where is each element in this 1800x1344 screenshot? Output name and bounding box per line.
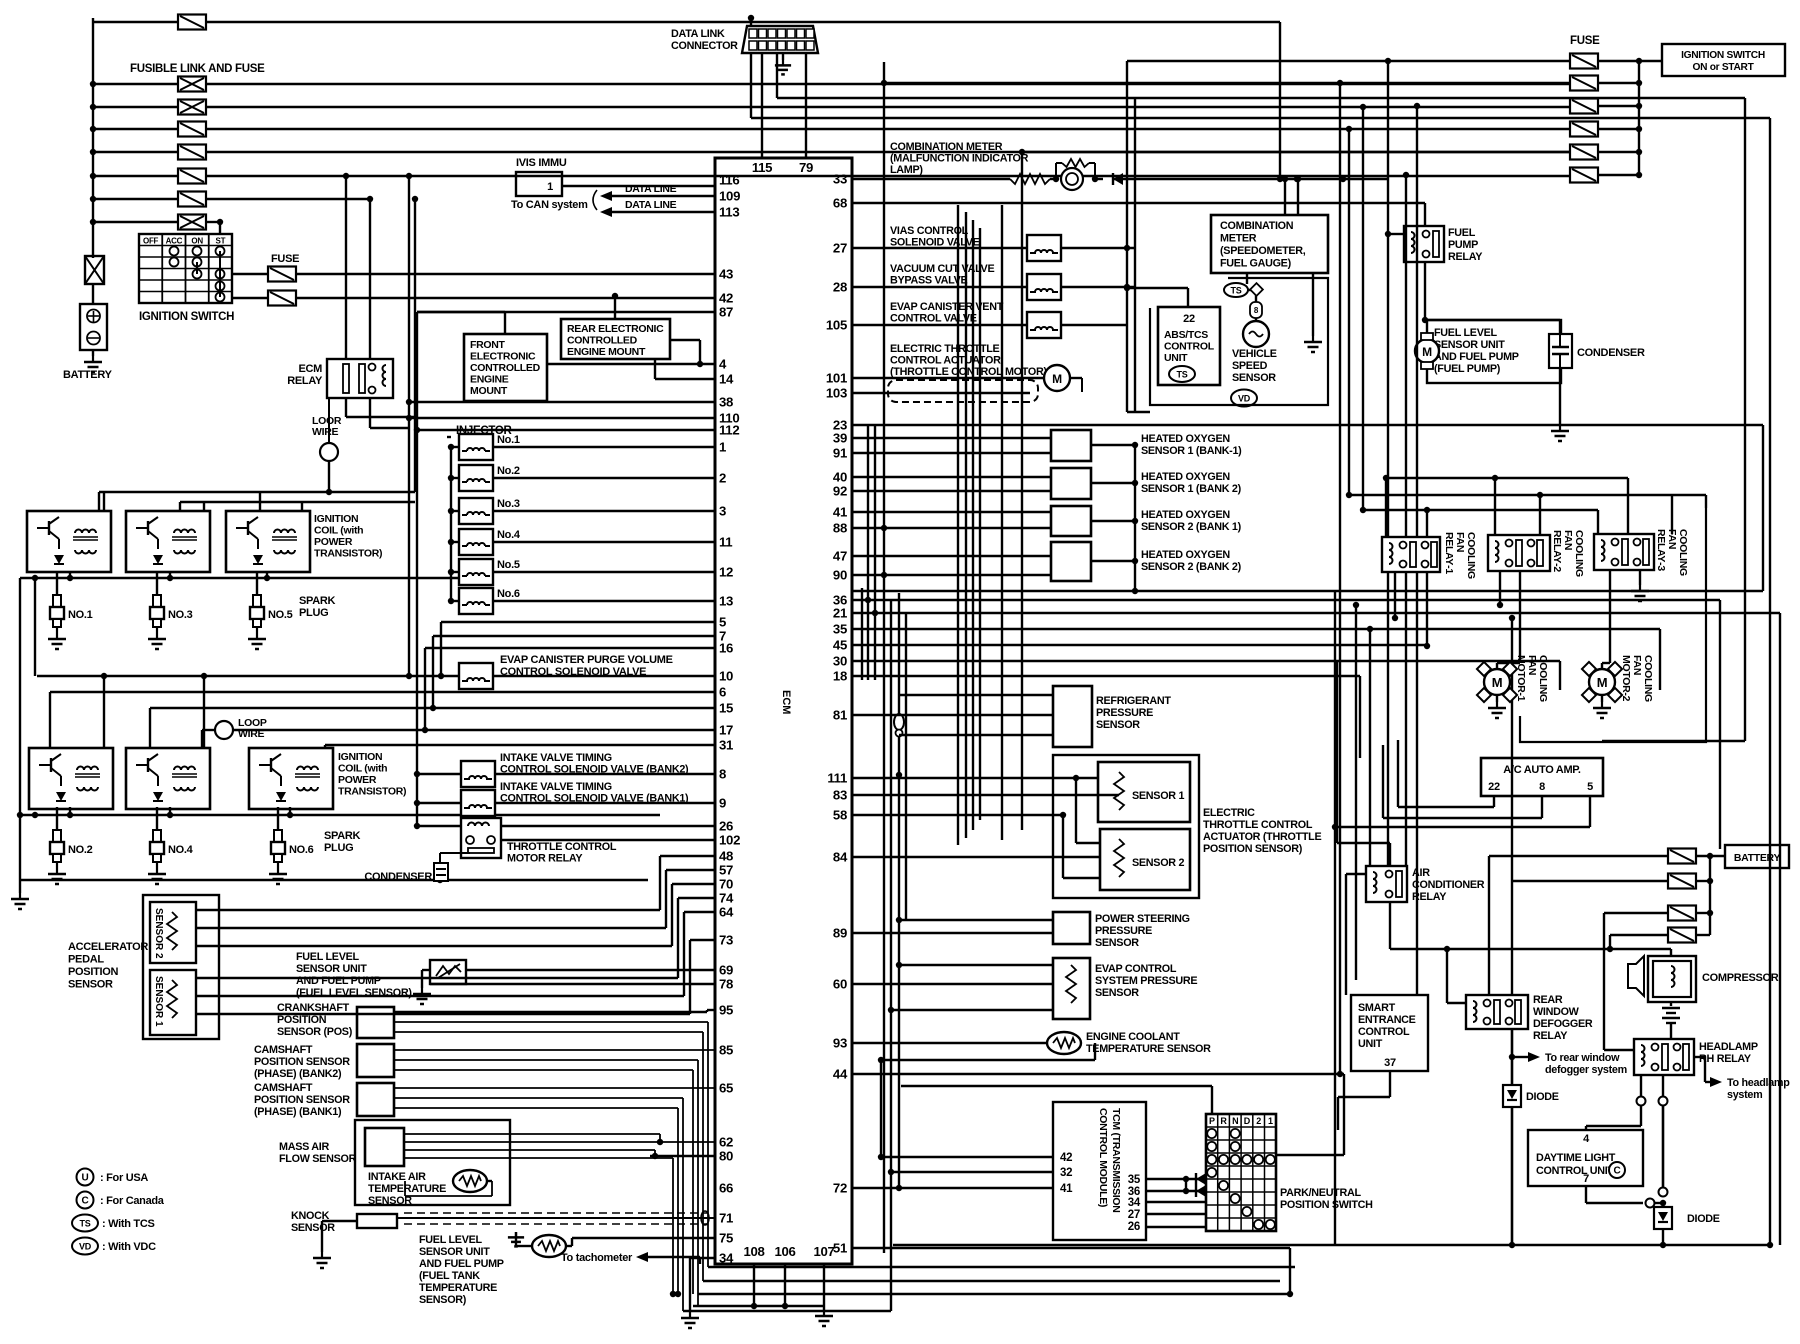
evap canister vent control valve [1027, 312, 1061, 338]
spark plug NO.3 [156, 572, 158, 595]
throttle control motor relay [461, 818, 501, 858]
svg-text:16: 16 [719, 641, 733, 656]
svg-text:CAMSHAFT: CAMSHAFT [254, 1044, 313, 1056]
svg-text:SENSOR: SENSOR [68, 979, 113, 991]
fuse battery 3 [1668, 906, 1696, 921]
svg-text:FRONT: FRONT [470, 339, 506, 351]
joint connector [894, 714, 904, 730]
svg-text:: For USA: : For USA [100, 1172, 148, 1184]
svg-text:83: 83 [833, 788, 847, 803]
svg-text:101: 101 [826, 371, 847, 386]
svg-text:(MALFUNCTION INDICATOR: (MALFUNCTION INDICATOR [890, 153, 1029, 165]
svg-text:15: 15 [719, 701, 733, 716]
heated oxygen sensor 4 [1051, 542, 1091, 581]
svg-text:RELAY‑1: RELAY‑1 [1443, 532, 1455, 574]
svg-text:35: 35 [833, 622, 847, 637]
wire injector 4 feed [451, 541, 459, 543]
wire coil gnd drop [69, 572, 71, 578]
wire cf far right [1744, 98, 1746, 741]
svg-text:AND FUEL PUMP: AND FUEL PUMP [419, 1258, 504, 1270]
svg-text:NO.3: NO.3 [168, 609, 193, 621]
battery [92, 284, 94, 304]
svg-text:EVAP CANISTER VENT: EVAP CANISTER VENT [890, 301, 1004, 313]
wire dlc 115 [748, 15, 754, 21]
injector No.5 [459, 559, 493, 585]
svg-text:NO.6: NO.6 [289, 844, 314, 856]
svg-text:(FUEL LEVEL SENSOR): (FUEL LEVEL SENSOR) [296, 987, 412, 999]
svg-text:TCM (TRANSMISSION: TCM (TRANSMISSION [1110, 1108, 1122, 1213]
svg-text:SENSOR 2 (BANK 2): SENSOR 2 (BANK 2) [1141, 561, 1242, 573]
wire ground bus bottom [20, 879, 648, 881]
svg-text:44: 44 [833, 1067, 848, 1082]
maf inner [365, 1128, 404, 1166]
svg-text:SENSOR): SENSOR) [419, 1294, 467, 1306]
svg-text:ENGINE MOUNT: ENGINE MOUNT [567, 346, 646, 358]
svg-text:COMBINATION METER: COMBINATION METER [890, 141, 1003, 153]
svg-text:27: 27 [833, 241, 847, 256]
A/C auto amp [1481, 758, 1603, 796]
wire headlamp relay out right [1694, 1056, 1705, 1058]
wire coil power stubs [103, 492, 105, 511]
wire injector 5 feed [451, 571, 459, 573]
wire bottom bus right [1662, 1229, 1664, 1245]
svg-text:91: 91 [833, 446, 847, 461]
svg-text:VEHICLE: VEHICLE [1232, 348, 1277, 360]
svg-text:87: 87 [719, 305, 733, 320]
rear window defogger relay [1466, 995, 1528, 1029]
wire trunk v 1335 [1334, 590, 1336, 1245]
wire injector 5 to ECM [493, 571, 715, 573]
wire comb meter feeds [1284, 179, 1286, 215]
svg-text:10: 10 [719, 669, 733, 684]
svg-text:DATA LINK: DATA LINK [671, 28, 725, 40]
intake valve timing control solenoid valve bank2 [461, 761, 495, 787]
TCM transmission control module [1053, 1102, 1146, 1240]
svg-text:REAR: REAR [1533, 994, 1563, 1006]
svg-text:3: 3 [719, 504, 726, 519]
svg-text:26: 26 [719, 819, 733, 834]
fuel level sensor unit and fuel pump [1427, 320, 1561, 383]
wire ignition to fuses [232, 273, 268, 275]
wire to tachometer [648, 1256, 700, 1258]
svg-text:M: M [1052, 372, 1062, 386]
svg-text:SENSOR 1 (BANK 2): SENSOR 1 (BANK 2) [1141, 483, 1242, 495]
svg-text:88: 88 [833, 521, 847, 536]
svg-text:IGNITION SWITCH: IGNITION SWITCH [1681, 50, 1765, 61]
svg-text:R: R [1220, 1116, 1227, 1126]
intake valve timing control solenoid valve bank1 [461, 790, 495, 816]
ignition coil row1 3 [226, 511, 310, 572]
svg-text:POSITION: POSITION [68, 966, 119, 978]
wire right fuse collector [1638, 61, 1640, 175]
wire coil2 gnd drop [289, 807, 291, 815]
diode MIL [1113, 173, 1123, 185]
svg-text:107: 107 [813, 1244, 834, 1259]
svg-text:VACUUM CUT VALVE: VACUUM CUT VALVE [890, 263, 994, 275]
wire mounts [504, 312, 506, 334]
wire smart entrance [1389, 1071, 1391, 1097]
wire app sensor2 [196, 909, 660, 911]
data link connector [742, 26, 818, 53]
wire purge valve to ECM pin10 [493, 675, 715, 677]
wire ecm relay out 1 [345, 398, 347, 417]
svg-text:SENSOR 1 (BANK-1): SENSOR 1 (BANK-1) [1141, 445, 1242, 457]
svg-text:FUSE: FUSE [271, 253, 299, 265]
sensor 1 [1098, 762, 1190, 822]
ECM relay [327, 359, 393, 398]
svg-text:17: 17 [719, 723, 733, 738]
svg-text:SENSOR: SENSOR [1095, 987, 1139, 999]
fuel pump relay [1404, 226, 1444, 262]
ABS/TCS control unit [1158, 307, 1220, 385]
svg-text:POSITION: POSITION [277, 1014, 327, 1026]
svg-text:SYSTEM PRESSURE: SYSTEM PRESSURE [1095, 975, 1197, 987]
refrigerant pressure sensor [1053, 686, 1092, 747]
svg-text:MOTOR RELAY: MOTOR RELAY [507, 853, 583, 865]
svg-text:WIRE: WIRE [312, 426, 339, 438]
svg-text:78: 78 [719, 977, 733, 992]
svg-text:M: M [1422, 345, 1432, 359]
svg-text:2: 2 [719, 471, 726, 486]
svg-text:IVIS IMMU: IVIS IMMU [516, 157, 567, 169]
svg-text:To rear window: To rear window [1545, 1052, 1620, 1064]
wire trunk v 1406 [1405, 175, 1407, 866]
wire fuel level gnd [422, 969, 430, 971]
svg-text:HEATED OXYGEN: HEATED OXYGEN [1141, 549, 1230, 561]
svg-text:P: P [1209, 1116, 1215, 1126]
svg-text:37: 37 [1384, 1057, 1396, 1069]
svg-text:ACCELERATOR: ACCELERATOR [68, 941, 148, 953]
wire mid 3 [852, 628, 1660, 630]
ignition coil row2 1 [29, 748, 113, 809]
svg-text:RELAY: RELAY [1533, 1030, 1568, 1042]
wire v1135 [1134, 98, 1136, 412]
svg-text:66: 66 [719, 1181, 733, 1196]
svg-text:112: 112 [719, 423, 739, 438]
wire pin38 [409, 401, 715, 403]
svg-text:POWER: POWER [338, 774, 377, 786]
svg-text:64: 64 [719, 905, 734, 920]
ignition switch on or start [1662, 44, 1785, 76]
fuse right 1 [1570, 54, 1598, 69]
svg-text:SENSOR 2: SENSOR 2 [153, 908, 164, 959]
cooling fan motor 2 [1601, 663, 1603, 668]
svg-text:TS: TS [1231, 286, 1242, 296]
svg-text:N: N [1232, 1116, 1238, 1126]
wire ac amp pins [1493, 796, 1495, 807]
wire mid 4 [852, 644, 1427, 646]
fuse battery 1 [1668, 849, 1696, 864]
daytime light control unit [1528, 1130, 1643, 1186]
svg-text:ST: ST [216, 237, 226, 246]
svg-text:IGNITION SWITCH: IGNITION SWITCH [139, 311, 234, 323]
svg-text:OFF: OFF [143, 237, 159, 246]
wire coil bottom bus row2 [20, 814, 660, 816]
wire ST feed [219, 222, 221, 234]
svg-text:33: 33 [833, 172, 847, 187]
svg-text:42: 42 [719, 291, 733, 306]
svg-text:LAMP): LAMP) [890, 164, 923, 176]
svg-text:51: 51 [833, 1241, 847, 1256]
svg-text:RELAY: RELAY [1448, 251, 1483, 263]
wire trunk v 1370 [1369, 629, 1371, 866]
svg-text:18: 18 [833, 669, 847, 684]
svg-text:SPARK: SPARK [324, 830, 361, 842]
svg-text:(FUEL TANK: (FUEL TANK [419, 1270, 480, 1282]
svg-text:THROTTLE CONTROL: THROTTLE CONTROL [1203, 819, 1313, 831]
svg-text:FUEL LEVEL: FUEL LEVEL [1434, 327, 1497, 339]
svg-text:C: C [82, 1196, 89, 1207]
wire o2 common [1134, 445, 1136, 591]
wire coil2 tops [49, 692, 51, 748]
svg-text:41: 41 [833, 505, 847, 520]
svg-text:TS: TS [80, 1219, 91, 1229]
heated oxygen sensor 1 [1051, 430, 1091, 461]
svg-text:12: 12 [719, 565, 733, 580]
wire pin23 [852, 424, 1763, 426]
svg-text:(SPEEDOMETER,: (SPEEDOMETER, [1220, 245, 1306, 257]
svg-text:21: 21 [833, 606, 847, 621]
svg-text:72: 72 [833, 1181, 847, 1196]
svg-text:FUSIBLE LINK AND FUSE: FUSIBLE LINK AND FUSE [130, 63, 265, 75]
wire ecm relay out 2 [369, 398, 371, 428]
svg-text:WINDOW: WINDOW [1533, 1006, 1580, 1018]
spark plug NO.2 [56, 807, 58, 830]
loop wire 2 [233, 729, 715, 731]
svg-text:SENSOR 2 (BANK 1): SENSOR 2 (BANK 1) [1141, 521, 1242, 533]
wire defogger relay [1511, 881, 1513, 995]
legend TS [72, 1215, 98, 1232]
vacuum cut valve bypass valve [1027, 274, 1061, 300]
data line 1 [612, 195, 715, 197]
wire MIL line [852, 178, 1010, 180]
svg-text:73: 73 [719, 933, 733, 948]
wire ecm relay feeds [345, 176, 347, 359]
svg-text:FUEL LEVEL: FUEL LEVEL [296, 951, 359, 963]
svg-text:CRANKSHAFT: CRANKSHAFT [277, 1002, 350, 1014]
svg-text:35: 35 [1128, 1174, 1141, 1186]
ground cf relay3 [1631, 585, 1649, 601]
svg-text:28: 28 [833, 280, 847, 295]
ignition coil row1 1 [27, 511, 111, 572]
svg-text:IGNITION: IGNITION [338, 751, 382, 763]
svg-text:34: 34 [719, 1251, 734, 1266]
electric throttle control actuator TPS outer [1053, 755, 1199, 898]
ignition switch grid [139, 234, 232, 303]
data line 2 [612, 211, 715, 213]
svg-text:5: 5 [719, 615, 726, 630]
svg-text:C: C [1614, 1166, 1621, 1177]
svg-text:CONTROL: CONTROL [1164, 341, 1215, 353]
svg-text:SENSOR UNIT: SENSOR UNIT [419, 1246, 490, 1258]
svg-text:No.6: No.6 [497, 588, 520, 600]
connector VD oval [1231, 390, 1257, 407]
svg-text:CONTROLLED: CONTROLLED [470, 362, 541, 374]
wires pins 5 7 16 [441, 621, 715, 623]
svg-text:RELAY: RELAY [287, 375, 323, 387]
svg-text:FLOW SENSOR: FLOW SENSOR [279, 1153, 357, 1165]
svg-text:SENSOR UNIT: SENSOR UNIT [1434, 339, 1505, 351]
svg-text:105: 105 [826, 318, 847, 333]
power steering pressure sensor [1053, 912, 1090, 944]
svg-text:INTAKE VALVE TIMING: INTAKE VALVE TIMING [500, 781, 612, 793]
svg-text:MASS AIR: MASS AIR [279, 1141, 329, 1153]
wire tcm to pnp [1146, 1178, 1206, 1180]
wire cf outer loop [1520, 508, 1706, 742]
svg-text:ACC: ACC [166, 237, 183, 246]
svg-text:HEATED OXYGEN: HEATED OXYGEN [1141, 433, 1230, 445]
svg-text:81: 81 [833, 708, 847, 723]
wire injector 3 feed [451, 510, 459, 512]
svg-text:SENSOR: SENSOR [1095, 937, 1139, 949]
svg-text:41: 41 [1060, 1183, 1073, 1195]
wire bundle v6 [898, 593, 900, 1188]
svg-text:(PHASE) (BANK1): (PHASE) (BANK1) [254, 1106, 342, 1118]
svg-text:69: 69 [719, 963, 733, 978]
svg-text:PRESSURE: PRESSURE [1096, 707, 1153, 719]
front electronic controlled engine mount [464, 334, 547, 401]
legend U [77, 1169, 94, 1186]
wire daytime out [1585, 1186, 1587, 1203]
svg-text:92: 92 [833, 484, 847, 499]
svg-text:CONDENSER: CONDENSER [1577, 347, 1645, 359]
fusible link F2 [90, 104, 96, 110]
svg-text:BATTERY: BATTERY [1734, 852, 1781, 864]
svg-text:system: system [1727, 1089, 1762, 1101]
wire trunk v 1356 [1355, 605, 1357, 980]
ignition coil row2 2 [126, 748, 210, 809]
wire pin34 gnd [690, 1257, 715, 1259]
wire vertical bus B [414, 199, 416, 492]
svg-text:80: 80 [719, 1149, 733, 1164]
injector No.4 [459, 529, 493, 555]
svg-text:8: 8 [1539, 781, 1545, 793]
svg-text:M: M [1597, 675, 1608, 690]
svg-text:DIODE: DIODE [1526, 1091, 1559, 1103]
svg-text:No.4: No.4 [497, 529, 521, 541]
svg-text:30: 30 [833, 654, 847, 669]
diode 2 [1662, 1203, 1664, 1207]
wire bundle v2 [867, 425, 869, 680]
svg-text:SENSOR UNIT: SENSOR UNIT [296, 963, 367, 975]
svg-text:60: 60 [833, 977, 847, 992]
svg-text:38: 38 [719, 395, 733, 410]
svg-text:2: 2 [1256, 1116, 1261, 1126]
svg-text:116: 116 [719, 173, 739, 188]
svg-text:BATTERY: BATTERY [63, 369, 113, 381]
svg-text:MOTOR‑1: MOTOR‑1 [1515, 655, 1527, 702]
wire headlamp feed [1603, 913, 1605, 1050]
wire trunk v 1763 [1762, 425, 1764, 591]
fuse battery 4 [1668, 928, 1696, 943]
svg-text:65: 65 [719, 1081, 733, 1096]
svg-text:PUMP: PUMP [1448, 239, 1478, 251]
fusible link F4 [90, 149, 96, 155]
svg-text:M: M [1492, 675, 1503, 690]
svg-text:SENSOR 2: SENSOR 2 [1132, 857, 1184, 869]
svg-text:14: 14 [719, 372, 734, 387]
evap control system pressure sensor [1053, 958, 1090, 1019]
svg-text:AIR: AIR [1412, 867, 1430, 879]
wire tcm feeds [881, 1156, 1053, 1158]
wire abs feed [1187, 288, 1189, 307]
wire coil top [259, 492, 261, 511]
air conditioner relay [1366, 866, 1407, 902]
svg-text:(FUEL PUMP): (FUEL PUMP) [1434, 363, 1501, 375]
headlamp RH relay [1634, 1039, 1694, 1075]
svg-text:SENSOR: SENSOR [1096, 719, 1140, 731]
svg-text:SPEED: SPEED [1232, 360, 1268, 372]
wire bundle v5 [890, 600, 892, 1311]
wire coil gnd drop [266, 572, 268, 578]
svg-text:IGNITION: IGNITION [314, 513, 358, 525]
svg-text:INTAKE AIR: INTAKE AIR [368, 1171, 426, 1183]
svg-text:To headlamp: To headlamp [1727, 1077, 1790, 1089]
wire mid 5 [852, 660, 1560, 662]
svg-text:SENSOR 1: SENSOR 1 [153, 976, 164, 1027]
svg-text:POWER STEERING: POWER STEERING [1095, 913, 1190, 925]
svg-text:To CAN system: To CAN system [511, 199, 588, 211]
svg-text:48: 48 [719, 849, 733, 864]
svg-text:CONTROL ACTUATOR: CONTROL ACTUATOR [890, 355, 1001, 367]
wire coil bottom bus row1 [20, 577, 460, 579]
wire injector 6 feed [451, 600, 459, 602]
wire dlc pins [750, 53, 752, 118]
battery fusible link symbol [85, 256, 104, 284]
wire condenser [1427, 319, 1560, 321]
fusible link F6 [90, 196, 96, 202]
wire ecm bottom gnd [823, 1306, 825, 1310]
svg-text:A/C AUTO AMP.: A/C AUTO AMP. [1503, 764, 1581, 776]
svg-text:7: 7 [1583, 1173, 1589, 1185]
svg-text:DAYTIME LIGHT: DAYTIME LIGHT [1536, 1152, 1616, 1164]
svg-text:84: 84 [833, 850, 848, 865]
svg-text:58: 58 [833, 808, 847, 823]
svg-text:SMART: SMART [1358, 1002, 1396, 1014]
svg-text:TEMPERATURE SENSOR: TEMPERATURE SENSOR [1086, 1043, 1211, 1055]
accelerator pedal position sensor [143, 895, 219, 1039]
svg-text:: With TCS: : With TCS [102, 1218, 155, 1230]
injector No.3 [459, 498, 493, 524]
svg-text:CONTROL: CONTROL [1358, 1026, 1410, 1038]
svg-text:ENTRANCE: ENTRANCE [1358, 1014, 1416, 1026]
svg-text:90: 90 [833, 568, 847, 583]
svg-text:SENSOR: SENSOR [1232, 372, 1276, 384]
svg-text:UNIT: UNIT [1164, 352, 1188, 364]
svg-text:MOUNT: MOUNT [470, 385, 508, 397]
svg-text:108: 108 [743, 1244, 764, 1259]
svg-text:115: 115 [752, 160, 772, 175]
wire app sensor1 [196, 977, 678, 979]
svg-text:47: 47 [833, 549, 847, 564]
svg-text:RELAY: RELAY [1412, 891, 1447, 903]
svg-text:(PHASE) (BANK2): (PHASE) (BANK2) [254, 1068, 342, 1080]
wire left battery bus [92, 18, 94, 258]
svg-text:TEMPERATURE: TEMPERATURE [419, 1282, 497, 1294]
svg-text:CONDITIONER: CONDITIONER [1412, 879, 1485, 891]
wire throttle relay pins [501, 825, 715, 827]
svg-text:TS: TS [1177, 370, 1188, 380]
cooling fan relay 2 [1488, 535, 1550, 571]
svg-text:CAMSHAFT: CAMSHAFT [254, 1082, 313, 1094]
svg-text:UNIT: UNIT [1358, 1038, 1383, 1050]
svg-text:No.5: No.5 [497, 559, 520, 571]
wire cf feeds a [1386, 477, 1628, 479]
wire mid 6 [852, 675, 1360, 677]
svg-text:MOTOR‑2: MOTOR‑2 [1620, 655, 1632, 702]
svg-text:No.2: No.2 [497, 465, 520, 477]
svg-text:ENGINE: ENGINE [470, 374, 509, 386]
